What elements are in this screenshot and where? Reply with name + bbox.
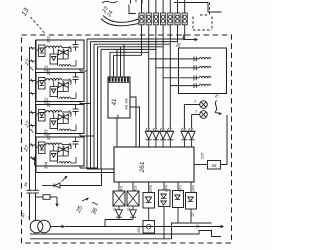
wire IC pin x119	[118, 182, 120, 191]
wire left bus vertical 3	[93, 44, 95, 169]
arrow into enclosure	[33, 157, 36, 166]
label 27 upper	[24, 58, 34, 71]
label 941 942	[125, 98, 129, 110]
wire stub left lower block 3	[30, 124, 37, 127]
label 304 block 4	[62, 146, 66, 152]
output rail with arrows	[51, 225, 225, 228]
connector socket X3	[153, 0, 158, 25]
label 41	[112, 99, 118, 106]
diode below K1	[116, 206, 123, 220]
cable 23 curve	[103, 16, 139, 23]
svg-text:304: 304	[44, 161, 49, 169]
choke L4	[170, 83, 211, 88]
label 304 block 3	[62, 114, 66, 120]
label 34 caps	[23, 181, 29, 187]
wire into interface box 2	[113, 55, 115, 77]
wire into interface box 5	[123, 44, 125, 77]
wire bus horizontal 7	[87, 38, 185, 40]
diode below K2	[130, 206, 137, 220]
leader line for label 13	[31, 17, 45, 33]
svg-text:304: 304	[62, 146, 66, 152]
LED D6	[188, 128, 195, 147]
svg-text:304: 304	[62, 114, 66, 120]
wire drop from connector X2	[148, 25, 150, 129]
wire IC pin x148.7	[148, 182, 150, 193]
lamp H1 with feed	[184, 101, 207, 129]
arrow 35	[183, 35, 198, 42]
svg-text:DP4: DP4	[191, 185, 195, 192]
wire left bus vertical 4	[97, 47, 99, 169]
wire bus horizontal 5	[94, 43, 170, 45]
wire 312 down	[177, 208, 179, 224]
optocoupler block 302	[36, 73, 84, 102]
label C13	[68, 110, 72, 117]
cable 24 curve	[101, 19, 139, 26]
label 12	[191, 213, 195, 217]
interface box 41	[108, 77, 130, 118]
svg-text:32: 32	[127, 208, 131, 212]
label 13	[21, 7, 31, 17]
choke L3	[163, 75, 211, 80]
label 23	[101, 5, 110, 15]
label 324	[46, 132, 51, 140]
wire bottom rail B	[30, 238, 172, 240]
wire left rail A	[29, 47, 31, 190]
label at lamp 1	[194, 100, 196, 104]
box 301	[143, 221, 155, 234]
threshold box 34	[208, 161, 221, 170]
svg-text:304: 304	[62, 82, 66, 88]
connector socket X5	[168, 0, 173, 25]
svg-text:DP8: DP8	[149, 185, 153, 192]
diode D21	[54, 183, 60, 188]
label 30	[20, 212, 26, 218]
wire block 2 output	[80, 102, 91, 104]
wire drop from connector X7	[184, 25, 186, 39]
wire regulator out	[50, 196, 57, 198]
wire collector line lower	[36, 166, 114, 173]
capacitor C11	[73, 40, 79, 51]
wire stub left lower block 4	[30, 156, 37, 159]
label C14	[68, 143, 72, 150]
wire stub left upper block 2	[30, 79, 37, 82]
svg-text:322: 322	[46, 68, 51, 76]
svg-text:38: 38	[116, 115, 120, 119]
dashed terminal frame top-right	[200, 3, 210, 16]
wire 313 down	[190, 209, 192, 223]
dashed enclosure box 13	[22, 35, 232, 243]
optocoupler block 303	[36, 105, 84, 134]
label pin DP3	[178, 185, 182, 192]
label 24	[106, 10, 115, 19]
svg-text:C13: C13	[68, 110, 72, 117]
wire drop from connector X5	[169, 25, 171, 129]
choke L2	[156, 65, 211, 70]
dashed frame around right connectors	[193, 17, 212, 31]
optocoupler block 304	[36, 137, 84, 166]
svg-text:315: 315	[200, 152, 205, 159]
label 314	[35, 145, 39, 149]
wire collector line upper	[87, 168, 114, 170]
label 323	[46, 100, 51, 108]
label 312	[35, 81, 39, 85]
wire IC pin x164	[163, 182, 165, 190]
label at lamp 2	[195, 110, 197, 114]
module K1	[113, 191, 125, 206]
svg-text:C14: C14	[68, 143, 72, 150]
brace over cable 23/24	[102, 1, 118, 3]
wire into interface box 4	[120, 47, 122, 77]
wire drop from connector X4	[162, 25, 164, 129]
wire stub left upper block 1	[30, 46, 37, 49]
diode box 308	[143, 193, 155, 209]
label 304 block 1	[62, 49, 66, 55]
wire left bus vertical 5	[100, 49, 102, 169]
wire bus horizontal 2	[110, 51, 149, 53]
label 38	[116, 115, 120, 119]
svg-text:304: 304	[62, 49, 66, 55]
label C11	[68, 46, 72, 52]
label 321	[46, 36, 51, 43]
label 304 block 2	[62, 82, 66, 88]
label 261	[139, 161, 146, 173]
lamp H2 with feed	[192, 111, 208, 129]
capacitor C22	[33, 190, 39, 220]
svg-text:301: 301	[137, 227, 141, 233]
wire bottom link	[172, 223, 212, 239]
wire top-right hook	[174, 3, 222, 13]
connector socket X1	[139, 0, 144, 25]
svg-text:32: 32	[113, 208, 117, 212]
LED D2	[153, 128, 160, 147]
module 311	[159, 190, 171, 207]
wire block 4 output	[80, 166, 98, 168]
wire interface box out 1	[130, 97, 136, 147]
svg-text:321: 321	[46, 36, 51, 43]
connector socket X4	[161, 0, 166, 25]
label 302	[44, 97, 49, 105]
wire left bus vertical 1	[86, 39, 88, 169]
generator G1	[30, 220, 50, 233]
wire into interface box 3	[116, 49, 118, 77]
label 27 mid	[24, 120, 34, 133]
wire lamp return	[221, 115, 228, 165]
wire left rail B	[35, 40, 37, 190]
wire stub left lower block 2	[30, 92, 37, 95]
wire 308 to 301	[148, 208, 150, 221]
label 303	[44, 129, 49, 137]
label 311	[35, 48, 39, 52]
label a	[28, 214, 31, 219]
wire into interface box 1	[109, 52, 111, 77]
controller IC 261	[114, 147, 194, 182]
diode D21 wire	[42, 185, 102, 187]
label pin 4D1	[119, 185, 123, 191]
wire bottom rail A	[30, 231, 221, 237]
wire to regulator	[36, 196, 44, 198]
label 301	[44, 65, 49, 72]
label 304	[44, 161, 49, 169]
label pin DP4	[191, 185, 195, 192]
LED D3	[160, 128, 167, 147]
label 36	[91, 203, 100, 216]
wire stub left upper block 3	[30, 111, 37, 114]
wire IC pin x133	[132, 182, 134, 191]
label 301	[137, 227, 141, 233]
wire left bus vertical 2	[90, 42, 92, 169]
wire drop from connector X6	[177, 25, 179, 42]
module 312	[173, 191, 184, 208]
wire block 1 output	[80, 69, 87, 71]
wire interface box out 2	[130, 107, 140, 147]
capacitor C21	[27, 190, 33, 220]
svg-text:323: 323	[46, 100, 51, 108]
wire IC pin x178	[177, 182, 179, 191]
label 322	[46, 68, 51, 76]
wire collector drop	[101, 169, 103, 186]
label 315	[200, 152, 205, 159]
module K2	[127, 191, 139, 206]
label 75	[213, 93, 219, 100]
wire interface box bottom	[116, 118, 118, 147]
terminal stub at top edge	[131, 0, 143, 4]
connector socket X7	[182, 0, 187, 25]
module 313	[186, 193, 197, 210]
LED D4	[167, 128, 174, 147]
wire under diodes	[105, 220, 133, 227]
label 32 right	[196, 225, 200, 229]
svg-text:34: 34	[211, 163, 217, 168]
svg-text:941 942: 941 942	[125, 98, 129, 110]
regulator box	[43, 195, 50, 200]
LED D5	[181, 128, 188, 147]
arrow down	[55, 197, 58, 207]
actuator wavy arrow	[215, 101, 222, 116]
choke box	[179, 48, 227, 94]
connector socket X2	[146, 0, 151, 25]
label below K2	[127, 208, 131, 212]
wire bus horizontal 6	[91, 41, 178, 43]
wire bus horizontal 4	[98, 46, 164, 48]
choke L1	[149, 57, 211, 62]
wire block 3 output	[80, 134, 94, 136]
optocoupler block 301	[36, 40, 84, 69]
label pin DP8	[149, 185, 153, 192]
svg-text:41: 41	[112, 99, 118, 106]
bracket near connector bank	[129, 5, 136, 14]
label C12	[68, 78, 72, 85]
label below K1	[113, 208, 117, 212]
svg-text:261: 261	[139, 161, 146, 173]
svg-text:C12: C12	[68, 78, 72, 85]
label 35	[175, 42, 182, 49]
capacitor C14	[73, 137, 79, 148]
wire bus horizontal 1	[114, 54, 142, 56]
wire drop from connector X3	[155, 25, 157, 129]
LED D1	[145, 128, 152, 147]
capacitor C12	[73, 73, 79, 84]
svg-text:12: 12	[191, 213, 195, 217]
wire stub left lower block 1	[30, 59, 37, 62]
capacitor C13	[73, 105, 79, 116]
wire bus horizontal 3	[101, 48, 156, 50]
wire 311 down	[163, 207, 165, 239]
label pin 4D2	[133, 185, 137, 191]
arrow up-right	[62, 176, 68, 182]
connector socket X6	[175, 0, 180, 25]
wire IC pin x191	[190, 182, 192, 193]
svg-text:3: 3	[194, 100, 196, 104]
svg-text:324: 324	[46, 132, 51, 140]
label 27 lower	[23, 144, 32, 154]
label 313	[35, 113, 39, 117]
svg-text:3: 3	[195, 110, 197, 114]
wire drop from connector X1	[141, 25, 143, 56]
wire stub left upper block 4	[30, 143, 37, 146]
wire IC to box 34	[194, 164, 208, 166]
svg-text:C11: C11	[68, 46, 72, 52]
label 25	[76, 198, 89, 215]
label pin DP9	[164, 185, 168, 192]
svg-text:DP9: DP9	[164, 185, 168, 192]
